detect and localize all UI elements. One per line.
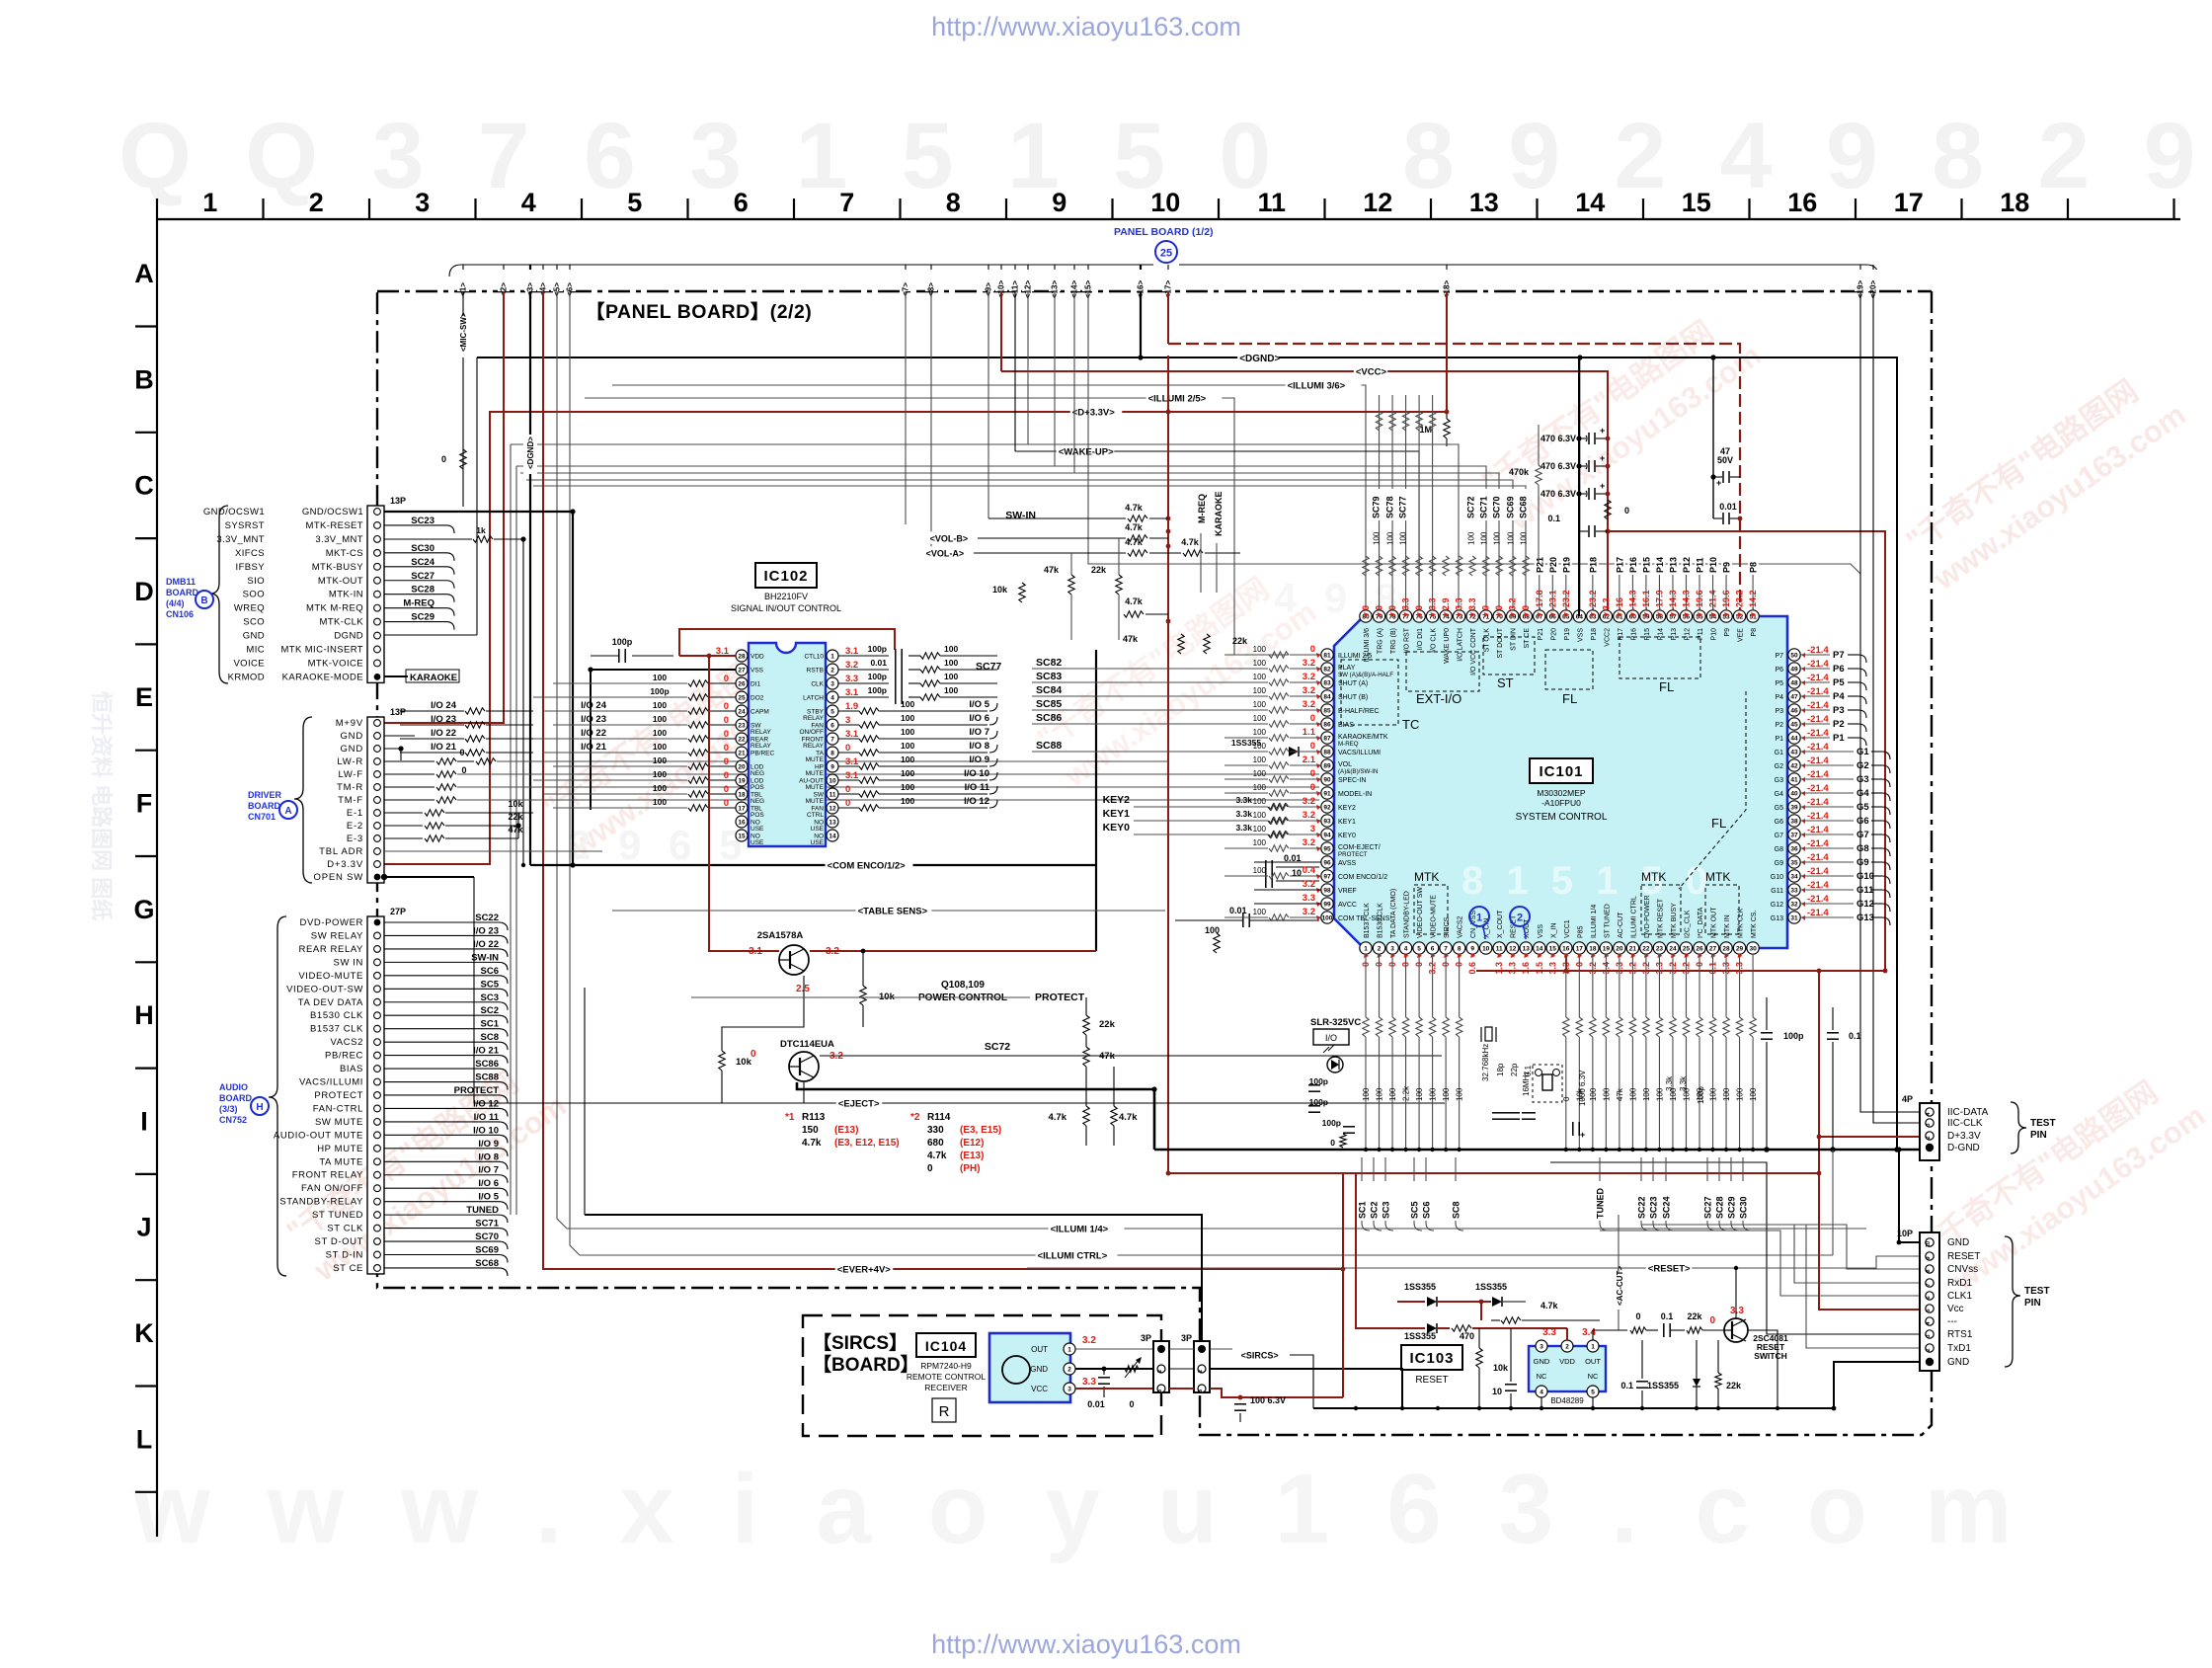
svg-text:11: 11 bbox=[1257, 188, 1286, 217]
svg-text:3.3V_MNT: 3.3V_MNT bbox=[216, 534, 265, 545]
svg-text:3P: 3P bbox=[1181, 1333, 1192, 1343]
svg-text:10k: 10k bbox=[508, 799, 523, 809]
svg-text:G10: G10 bbox=[1771, 874, 1783, 881]
IC101 label bbox=[1530, 758, 1593, 783]
svg-text:3.3: 3.3 bbox=[1547, 962, 1557, 975]
svg-text:100: 100 bbox=[1373, 531, 1382, 545]
svg-text:84: 84 bbox=[1323, 693, 1331, 700]
wire 19 drop to test pin bbox=[1860, 291, 1920, 1112]
svg-text:(E12): (E12) bbox=[960, 1138, 984, 1149]
svg-text:6: 6 bbox=[1431, 945, 1435, 952]
svg-text:SHUT (A): SHUT (A) bbox=[1338, 680, 1368, 687]
svg-text:VOL: VOL bbox=[1338, 761, 1352, 768]
svg-text:0.1: 0.1 bbox=[1547, 514, 1560, 523]
svg-text:GND: GND bbox=[1534, 1357, 1550, 1366]
svg-text:100: 100 bbox=[1253, 755, 1267, 764]
svg-text:I/O 23: I/O 23 bbox=[473, 925, 499, 936]
svg-text:22k: 22k bbox=[1687, 1311, 1702, 1321]
svg-text:USE: USE bbox=[750, 826, 764, 833]
svg-text:2: 2 bbox=[1565, 1343, 1569, 1350]
svg-text:100p: 100p bbox=[650, 686, 669, 696]
wire D+3.3V to test pins (red) bbox=[1819, 971, 1920, 1310]
svg-text:SPEC-IN: SPEC-IN bbox=[1338, 777, 1366, 784]
svg-text:ST DIN: ST DIN bbox=[1511, 628, 1518, 651]
wire Q109 emitter to ground bbox=[797, 1082, 1154, 1150]
svg-text:4.7k: 4.7k bbox=[1049, 1112, 1067, 1123]
svg-text:D+3.3V: D+3.3V bbox=[327, 859, 363, 870]
svg-text:FL: FL bbox=[1562, 691, 1577, 706]
svg-text:8: 8 bbox=[830, 750, 834, 756]
svg-text:14: 14 bbox=[1575, 188, 1605, 217]
svg-text:470k: 470k bbox=[1509, 467, 1530, 477]
svg-text:100p: 100p bbox=[868, 644, 887, 654]
svg-text:3: 3 bbox=[1198, 1390, 1204, 1392]
svg-text:DGND: DGND bbox=[334, 631, 363, 642]
svg-text:0: 0 bbox=[724, 756, 729, 767]
svg-text:I/O 9: I/O 9 bbox=[969, 755, 989, 765]
svg-text:I/O 8: I/O 8 bbox=[478, 1152, 499, 1162]
IC101 bottom resistor bank bbox=[1365, 954, 1367, 1017]
svg-text:<COM ENCO/1/2>: <COM ENCO/1/2> bbox=[828, 861, 907, 872]
svg-text:OUT: OUT bbox=[1585, 1357, 1601, 1366]
svg-text:3.3k: 3.3k bbox=[1665, 1075, 1674, 1091]
svg-text:CTRL: CTRL bbox=[807, 812, 824, 819]
svg-text:100: 100 bbox=[1253, 728, 1267, 737]
svg-text:2: 2 bbox=[1378, 945, 1382, 952]
svg-text:22k: 22k bbox=[508, 812, 523, 822]
svg-text:GND: GND bbox=[340, 744, 363, 755]
svg-text:100: 100 bbox=[653, 783, 667, 793]
svg-text:100: 100 bbox=[944, 644, 958, 654]
crystal 16MHz dashed bbox=[1533, 1065, 1562, 1102]
svg-text:22k: 22k bbox=[1232, 636, 1248, 646]
wire KARAOKE bbox=[384, 675, 408, 677]
svg-text:8: 8 bbox=[1458, 945, 1461, 952]
svg-text:18: 18 bbox=[1589, 945, 1597, 952]
svg-text:100: 100 bbox=[1253, 686, 1267, 695]
svg-text:3.3: 3.3 bbox=[1508, 962, 1518, 975]
brace CN752 bbox=[269, 916, 286, 1276]
svg-text:PANEL BOARD (1/2): PANEL BOARD (1/2) bbox=[1114, 226, 1214, 238]
svg-text:I/O 23: I/O 23 bbox=[431, 714, 456, 725]
svg-text:-21.4: -21.4 bbox=[1807, 645, 1829, 656]
svg-text:100: 100 bbox=[1456, 1087, 1464, 1101]
svg-text:100: 100 bbox=[901, 727, 914, 737]
IC103 label bbox=[1401, 1345, 1462, 1370]
svg-text:3.2: 3.2 bbox=[1303, 810, 1315, 821]
ground wire reset cluster bbox=[1313, 1407, 1834, 1409]
svg-text:5: 5 bbox=[1591, 1389, 1595, 1395]
svg-text:3: 3 bbox=[1926, 1123, 1932, 1126]
wire GND/OCSW1 thick bbox=[384, 511, 573, 513]
svg-text:0: 0 bbox=[845, 784, 850, 795]
svg-text:VIDEO-MUTE: VIDEO-MUTE bbox=[298, 971, 363, 982]
svg-text:PROTECT: PROTECT bbox=[454, 1085, 500, 1096]
wire VCC branch to test pins (red) bbox=[1608, 531, 1885, 971]
svg-text:1.9: 1.9 bbox=[845, 701, 858, 712]
svg-text:【PANEL BOARD】(2/2): 【PANEL BOARD】(2/2) bbox=[586, 300, 812, 323]
svg-text:0: 0 bbox=[724, 743, 729, 754]
connector CN106 DMB11 board 13P bbox=[367, 506, 384, 682]
svg-text:KARAOKE/MTK: KARAOKE/MTK bbox=[1338, 734, 1388, 741]
svg-text:SC6: SC6 bbox=[481, 966, 499, 977]
svg-text:SC68: SC68 bbox=[475, 1258, 499, 1269]
svg-text:100p: 100p bbox=[1783, 1031, 1804, 1041]
svg-text:3.2: 3.2 bbox=[1303, 699, 1315, 710]
svg-text:*2: *2 bbox=[910, 1112, 920, 1123]
svg-text:G3: G3 bbox=[1775, 777, 1783, 784]
svg-text:SC3: SC3 bbox=[481, 993, 499, 1003]
svg-text:SCO: SCO bbox=[243, 617, 265, 628]
svg-text:3.2: 3.2 bbox=[1303, 879, 1315, 890]
svg-text:1k: 1k bbox=[476, 525, 486, 535]
svg-text:0: 0 bbox=[750, 1049, 756, 1060]
wires to IC101 top pins 73-68 bbox=[511, 444, 1459, 608]
resistors E-1 E-2 E-3 bbox=[384, 812, 423, 814]
svg-text:3.3: 3.3 bbox=[1601, 597, 1611, 610]
IC101 top pin wires bbox=[1363, 556, 1369, 576]
svg-text:SC77: SC77 bbox=[976, 661, 1001, 673]
svg-text:0: 0 bbox=[1129, 1399, 1134, 1409]
wire ILLUMI 3/6 bbox=[612, 385, 1366, 608]
svg-text:G: G bbox=[133, 895, 154, 924]
svg-text:PROTECT: PROTECT bbox=[314, 1090, 363, 1101]
svg-text:SIO: SIO bbox=[247, 576, 265, 587]
svg-text:VCC1: VCC1 bbox=[1564, 919, 1571, 938]
svg-text:100: 100 bbox=[1253, 714, 1267, 723]
wire red rail y1188 bbox=[1168, 1172, 1819, 1174]
svg-text:MTK-CLK: MTK-CLK bbox=[320, 617, 364, 628]
svg-text:I/O CLK: I/O CLK bbox=[1431, 628, 1438, 653]
svg-text:10: 10 bbox=[1150, 188, 1180, 217]
svg-text:*1: *1 bbox=[785, 1112, 795, 1123]
wire red from left bbox=[1356, 1262, 1382, 1328]
svg-text:3: 3 bbox=[1390, 945, 1394, 952]
resistor 1M bbox=[1446, 412, 1448, 419]
svg-text:+: + bbox=[1600, 481, 1605, 491]
svg-text:P12: P12 bbox=[1684, 628, 1691, 641]
svg-text:0: 0 bbox=[1310, 768, 1315, 779]
svg-text:SC88: SC88 bbox=[475, 1072, 499, 1083]
svg-text:2: 2 bbox=[830, 667, 834, 674]
op-amp IC102 label bbox=[755, 563, 817, 588]
svg-text:1M: 1M bbox=[1419, 425, 1432, 435]
dashed block MTK3 bbox=[1705, 885, 1739, 934]
svg-text:I/O 11: I/O 11 bbox=[965, 782, 990, 793]
svg-text:D-GND: D-GND bbox=[1947, 1143, 1980, 1153]
svg-text:TRG (B): TRG (B) bbox=[1390, 628, 1397, 654]
ruler top line bbox=[157, 218, 2180, 220]
svg-text:ILLUMI 1/4: ILLUMI 1/4 bbox=[1591, 905, 1598, 938]
wire OUT bbox=[1075, 1348, 1155, 1350]
svg-text:96: 96 bbox=[1323, 859, 1331, 866]
svg-text:1SS355: 1SS355 bbox=[1647, 1381, 1679, 1390]
svg-text:SC22: SC22 bbox=[475, 913, 499, 923]
resistor 0 bbox=[1125, 1366, 1139, 1372]
svg-text:DMB11: DMB11 bbox=[166, 577, 196, 587]
net SIRCS bbox=[1210, 1348, 1232, 1350]
svg-text:SC88: SC88 bbox=[1036, 740, 1062, 752]
svg-text:RELAY: RELAY bbox=[803, 743, 824, 750]
svg-text:LW-R: LW-R bbox=[337, 756, 363, 767]
svg-text:81: 81 bbox=[1323, 652, 1331, 659]
svg-text:3.2: 3.2 bbox=[1303, 837, 1315, 848]
svg-text:27: 27 bbox=[738, 667, 746, 674]
wire bottom strip bbox=[473, 1103, 475, 1288]
svg-text:ST TUNED: ST TUNED bbox=[1604, 904, 1611, 938]
svg-text:0: 0 bbox=[724, 798, 729, 809]
svg-text:P3: P3 bbox=[1775, 708, 1783, 715]
svg-text:SC72: SC72 bbox=[1466, 496, 1476, 518]
svg-text:X_IN: X_IN bbox=[1550, 922, 1557, 938]
svg-text:100p: 100p bbox=[868, 672, 887, 681]
svg-text:PIN: PIN bbox=[2024, 1298, 2041, 1309]
svg-text:0.1: 0.1 bbox=[1620, 1381, 1633, 1390]
svg-text:100: 100 bbox=[1507, 531, 1516, 545]
wire RESET net bbox=[1027, 1256, 1920, 1268]
svg-text:2.5: 2.5 bbox=[796, 984, 810, 994]
svg-text:35: 35 bbox=[1790, 859, 1798, 866]
svg-text:I/O 12: I/O 12 bbox=[964, 796, 989, 807]
wire OUT to right bbox=[1592, 1330, 1594, 1340]
svg-text:I/O 6: I/O 6 bbox=[478, 1178, 499, 1189]
svg-text:<DGND>: <DGND> bbox=[1239, 354, 1280, 364]
svg-text:3.3k: 3.3k bbox=[1235, 823, 1252, 833]
svg-text:+: + bbox=[1600, 453, 1605, 463]
svg-text:0: 0 bbox=[1635, 1311, 1640, 1321]
svg-text:MTK OUT: MTK OUT bbox=[1711, 907, 1718, 938]
svg-text:21: 21 bbox=[1629, 945, 1637, 952]
svg-text:MODEL-IN: MODEL-IN bbox=[1338, 791, 1372, 798]
svg-text:P14: P14 bbox=[1655, 557, 1665, 573]
svg-text:0.1: 0.1 bbox=[1661, 1311, 1674, 1321]
svg-text:100: 100 bbox=[901, 699, 914, 709]
svg-text:30: 30 bbox=[1749, 945, 1757, 952]
svg-text:MTK-OUT: MTK-OUT bbox=[318, 576, 363, 587]
svg-text:I/O RST: I/O RST bbox=[1404, 627, 1411, 653]
svg-text:I/O DI1: I/O DI1 bbox=[1417, 628, 1424, 650]
svg-text:REMOTE CONTROL: REMOTE CONTROL bbox=[907, 1372, 987, 1382]
svg-text:I/O 8: I/O 8 bbox=[969, 741, 989, 752]
svg-text:P21: P21 bbox=[1535, 557, 1544, 573]
svg-text:<TABLE SENS>: <TABLE SENS> bbox=[858, 907, 928, 917]
svg-text:5: 5 bbox=[1926, 1309, 1932, 1311]
svg-text:0: 0 bbox=[724, 770, 729, 781]
svg-text:33: 33 bbox=[1790, 887, 1798, 894]
svg-text:ST CE: ST CE bbox=[1524, 628, 1531, 649]
svg-text:100: 100 bbox=[1253, 838, 1267, 847]
svg-text:3.3: 3.3 bbox=[1082, 1377, 1096, 1388]
svg-text:SW RELAY: SW RELAY bbox=[311, 930, 363, 941]
svg-text:TBL ADR: TBL ADR bbox=[319, 846, 363, 857]
svg-text:B: B bbox=[200, 596, 207, 606]
svg-text:P21: P21 bbox=[1538, 628, 1544, 641]
svg-text:E-1: E-1 bbox=[347, 808, 363, 819]
svg-text:0: 0 bbox=[1494, 605, 1504, 610]
dashed block FL2 bbox=[1619, 637, 1700, 678]
svg-text:w w w . x i a o y u 1 6 3 .: w w w . x i a o y u 1 6 3 . c o m bbox=[132, 1454, 2027, 1564]
svg-text:【BOARD】: 【BOARD】 bbox=[813, 1353, 919, 1376]
svg-text:48: 48 bbox=[1790, 679, 1798, 686]
wire ILLUMI 1/4 route bbox=[557, 291, 1866, 1229]
svg-text:100: 100 bbox=[901, 755, 914, 764]
wire 3 thick drop / COM ENCO bbox=[529, 291, 531, 865]
svg-text:0: 0 bbox=[845, 743, 850, 754]
svg-text:3: 3 bbox=[1067, 1386, 1071, 1392]
svg-text:AUDIO-OUT MUTE: AUDIO-OUT MUTE bbox=[274, 1130, 363, 1141]
svg-text:6: 6 bbox=[1926, 1296, 1932, 1299]
capacitor 47 50V bbox=[1712, 357, 1714, 518]
svg-text:P6: P6 bbox=[1833, 664, 1845, 675]
svg-text:MTK-BUSY: MTK-BUSY bbox=[312, 562, 364, 573]
svg-text:I/O: I/O bbox=[1325, 1033, 1337, 1043]
svg-text:SLR-325VC: SLR-325VC bbox=[1310, 1017, 1361, 1028]
svg-text:2: 2 bbox=[1517, 913, 1523, 924]
resistor 0 on MIC-SW bbox=[460, 449, 466, 469]
svg-text:K: K bbox=[134, 1318, 154, 1348]
svg-text:VACS/ILLUMI: VACS/ILLUMI bbox=[299, 1077, 363, 1088]
svg-text:COM-EJECT/: COM-EJECT/ bbox=[1338, 844, 1381, 851]
wires CN701 rows bbox=[384, 735, 415, 737]
svg-text:3.3: 3.3 bbox=[1455, 597, 1464, 610]
svg-text:MTK-VOICE: MTK-VOICE bbox=[308, 658, 363, 669]
svg-text:VSS: VSS bbox=[1538, 924, 1544, 938]
wire 17 red drop bbox=[1167, 291, 1169, 344]
svg-text:VCC: VCC bbox=[1031, 1385, 1048, 1393]
svg-text:BOARD: BOARD bbox=[219, 1093, 252, 1103]
panel board 1/2 bus wire bbox=[449, 265, 1153, 277]
svg-text:PB/REC: PB/REC bbox=[325, 1051, 363, 1062]
svg-text:BIAS: BIAS bbox=[340, 1064, 363, 1074]
svg-text:SC86: SC86 bbox=[475, 1059, 499, 1070]
svg-text:97: 97 bbox=[1323, 873, 1331, 880]
LED D bbox=[1327, 1057, 1343, 1072]
svg-text:26: 26 bbox=[1696, 945, 1703, 952]
svg-text:P20: P20 bbox=[1548, 557, 1558, 573]
svg-text:100: 100 bbox=[1602, 1087, 1611, 1101]
svg-text:9: 9 bbox=[1052, 188, 1066, 217]
svg-text:0: 0 bbox=[1310, 741, 1315, 752]
svg-text:<RESET>: <RESET> bbox=[1648, 1264, 1691, 1275]
svg-text:(PH): (PH) bbox=[960, 1163, 981, 1174]
svg-text:3: 3 bbox=[1157, 1390, 1163, 1392]
svg-text:7: 7 bbox=[1444, 945, 1448, 952]
svg-text:13: 13 bbox=[1469, 188, 1499, 217]
svg-text:-21.4: -21.4 bbox=[1807, 783, 1829, 794]
svg-text:VSS: VSS bbox=[1577, 628, 1584, 642]
svg-text:100: 100 bbox=[1386, 531, 1395, 545]
svg-text:3: 3 bbox=[1540, 1343, 1543, 1350]
svg-text:G7: G7 bbox=[1775, 833, 1783, 839]
svg-text:2: 2 bbox=[1067, 1366, 1071, 1373]
svg-text:GND/OCSW1: GND/OCSW1 bbox=[302, 507, 363, 517]
svg-text:100p: 100p bbox=[612, 637, 633, 647]
svg-text:MTK RESET: MTK RESET bbox=[1657, 898, 1664, 938]
wire MIC-SW drop bbox=[462, 291, 464, 507]
net labels P21..P8 bbox=[1535, 541, 1545, 575]
svg-text:TM-R: TM-R bbox=[337, 782, 363, 793]
svg-text:2: 2 bbox=[1157, 1370, 1163, 1373]
svg-text:11: 11 bbox=[829, 791, 836, 798]
wire DGND rail bbox=[477, 357, 1897, 1150]
svg-text:100: 100 bbox=[1467, 531, 1476, 545]
svg-text:SC22: SC22 bbox=[1637, 1196, 1647, 1219]
svg-text:3.3: 3.3 bbox=[845, 674, 858, 684]
svg-text:1: 1 bbox=[202, 188, 217, 217]
svg-text:WAKE UP0: WAKE UP0 bbox=[1444, 628, 1451, 664]
svg-text:+: + bbox=[1600, 426, 1605, 436]
svg-text:3.1: 3.1 bbox=[845, 687, 859, 698]
svg-text:0.01: 0.01 bbox=[1719, 502, 1737, 512]
svg-text:10: 10 bbox=[1492, 1387, 1502, 1396]
svg-text:SW IN: SW IN bbox=[334, 957, 363, 968]
svg-text:DO2: DO2 bbox=[750, 695, 764, 702]
svg-text:3: 3 bbox=[415, 188, 430, 217]
svg-text:P1: P1 bbox=[1833, 733, 1845, 744]
wire WAKE-UP bbox=[1015, 451, 1419, 608]
svg-text:G4: G4 bbox=[1775, 791, 1783, 798]
svg-text:FRONT RELAY: FRONT RELAY bbox=[292, 1170, 363, 1181]
svg-text:0: 0 bbox=[724, 701, 729, 712]
svg-text:AVSS: AVSS bbox=[1338, 860, 1356, 867]
svg-text:SIGNAL IN/OUT CONTROL: SIGNAL IN/OUT CONTROL bbox=[731, 603, 841, 613]
svg-text:3: 3 bbox=[1310, 824, 1315, 834]
svg-text:24: 24 bbox=[1669, 945, 1677, 952]
svg-text:1SS355: 1SS355 bbox=[1404, 1331, 1436, 1341]
svg-text:J: J bbox=[136, 1213, 151, 1242]
svg-text:1SS355: 1SS355 bbox=[1475, 1282, 1507, 1292]
svg-text:FL: FL bbox=[1711, 816, 1726, 831]
svg-text:I: I bbox=[140, 1106, 148, 1136]
svg-text:I/O 21: I/O 21 bbox=[431, 742, 457, 753]
svg-text:14: 14 bbox=[829, 833, 836, 839]
svg-text:-23.2: -23.2 bbox=[1735, 590, 1745, 610]
svg-text:A: A bbox=[134, 259, 154, 288]
svg-text:G5: G5 bbox=[1856, 802, 1869, 813]
svg-text:0.4: 0.4 bbox=[1303, 865, 1316, 876]
svg-text:G2: G2 bbox=[1775, 763, 1783, 770]
svg-text:P14: P14 bbox=[1657, 628, 1664, 641]
svg-text:COM ENCO/1/2: COM ENCO/1/2 bbox=[1338, 874, 1387, 881]
svg-text:ST D-OUT: ST D-OUT bbox=[315, 1236, 363, 1247]
svg-text:MTK CS.: MTK CS. bbox=[1751, 911, 1758, 938]
svg-text:10: 10 bbox=[1926, 1241, 1932, 1247]
svg-text:P13: P13 bbox=[1671, 628, 1678, 641]
svg-text:I/O 22: I/O 22 bbox=[473, 939, 499, 950]
svg-text:SC78: SC78 bbox=[1385, 496, 1395, 518]
svg-text:I/O 24: I/O 24 bbox=[581, 700, 607, 711]
svg-text:26: 26 bbox=[738, 680, 746, 687]
svg-text:2.2k: 2.2k bbox=[1402, 1085, 1411, 1101]
svg-text:(E13): (E13) bbox=[834, 1125, 858, 1136]
svg-text:SC70: SC70 bbox=[475, 1231, 499, 1242]
svg-text:0.6: 0.6 bbox=[1467, 962, 1477, 975]
svg-text:16: 16 bbox=[738, 819, 746, 826]
svg-text:100: 100 bbox=[1253, 797, 1267, 806]
svg-text:100: 100 bbox=[1253, 769, 1267, 778]
svg-text:ST: ST bbox=[1497, 675, 1514, 690]
svg-text:P5: P5 bbox=[1833, 677, 1845, 688]
svg-text:SC68: SC68 bbox=[1519, 496, 1529, 518]
svg-text:2: 2 bbox=[1198, 1370, 1204, 1373]
svg-text:SC2: SC2 bbox=[481, 1005, 499, 1016]
svg-text:8 1 5 1 5 0: 8 1 5 1 5 0 bbox=[1461, 859, 1713, 903]
svg-text:SC28: SC28 bbox=[1715, 1196, 1725, 1219]
svg-text:100: 100 bbox=[1253, 908, 1267, 916]
dashed FL diagonal bbox=[1679, 691, 1746, 889]
svg-text:2: 2 bbox=[309, 188, 324, 217]
svg-text:KARAOKE: KARAOKE bbox=[1214, 491, 1224, 536]
